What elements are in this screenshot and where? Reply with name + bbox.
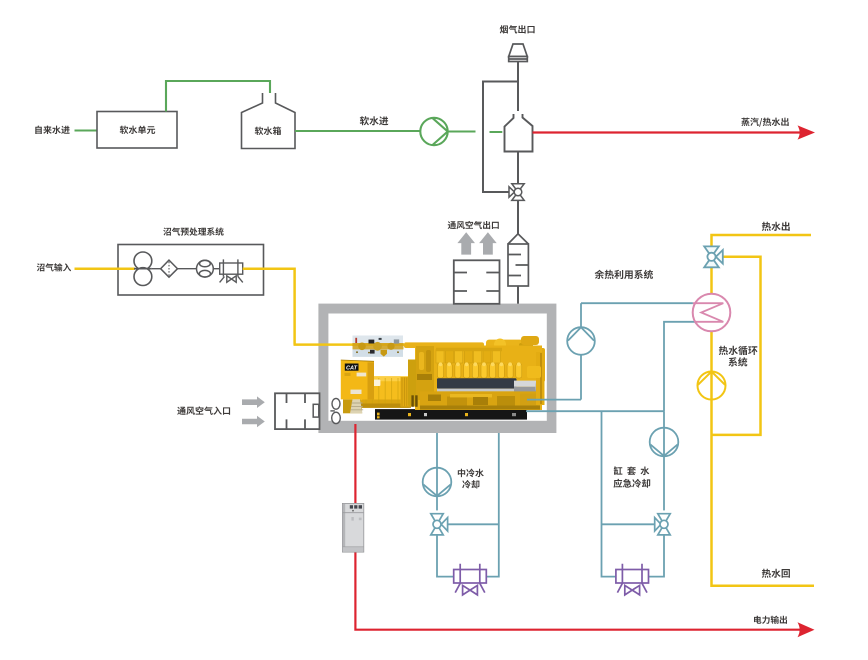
label: hot water circulation xyxy=(719,346,758,355)
vent air inlet arrows xyxy=(242,396,265,427)
svg-text:CAT: CAT xyxy=(346,366,358,372)
intercooler pump A4 xyxy=(423,468,452,497)
wire: boiler bottom xyxy=(517,152,519,184)
flue gas outlet cap xyxy=(509,44,528,62)
wire: valve arm to left drop xyxy=(602,523,655,525)
wire: hot water out header xyxy=(712,235,812,246)
wire: to heat exchanger top xyxy=(581,302,693,304)
gas meter xyxy=(197,260,214,277)
wire: HX bottom return xyxy=(664,322,695,411)
wire xyxy=(152,268,161,270)
air cleaner stack xyxy=(350,399,363,413)
gas train picture xyxy=(353,336,404,357)
wire: biogas over gas train xyxy=(352,343,404,346)
wire: emergency cooling drop left xyxy=(602,411,616,576)
wire: intercooler drop right xyxy=(487,433,499,577)
label: emergency cooling xyxy=(614,479,651,488)
label: tap water in xyxy=(35,126,70,134)
wire xyxy=(213,268,220,270)
wire: HX to hot water return xyxy=(712,332,815,586)
label: steam/hot water out xyxy=(741,118,788,127)
biogas blower (twin lobes) xyxy=(134,252,152,286)
wire: exhaust bypass loop xyxy=(483,82,518,193)
three-way valve V4 (intercooler) xyxy=(431,514,448,535)
three-way valve V3 (emergency cooling) xyxy=(655,514,671,535)
label: vent air outlet xyxy=(448,221,499,229)
power output arrowhead xyxy=(798,622,815,637)
jacket water pump A2 xyxy=(567,327,595,355)
gas pressure regulator xyxy=(220,259,243,282)
label: intercooler water xyxy=(458,469,484,478)
vent air outlet silencer box xyxy=(454,260,500,304)
genset base skid xyxy=(343,399,527,419)
vent air inlet louver box xyxy=(275,393,320,429)
control cabinet xyxy=(342,503,363,552)
plate heat exchanger xyxy=(693,294,731,332)
wire: tank to pump xyxy=(295,130,420,132)
wire: jacket water return stub xyxy=(526,410,664,412)
label: hot water return xyxy=(762,569,790,578)
label: biogas input xyxy=(37,263,71,271)
soft water unit box xyxy=(97,112,177,149)
wire: silencer to container roof xyxy=(517,286,519,304)
label: power output xyxy=(754,616,787,624)
control panel with CAT logo xyxy=(341,360,374,399)
gas filter (diamond) xyxy=(161,260,178,277)
remote radiator R1 (intercooler) xyxy=(454,564,487,595)
wire: intercooler drop left xyxy=(436,433,438,510)
label: flue gas outlet xyxy=(500,25,535,33)
steam/hot-water out red line xyxy=(533,131,801,133)
wire: unit top to tank xyxy=(166,81,270,112)
three-way valve V5 (hot water) xyxy=(704,246,723,267)
emergency cooling pump A3 xyxy=(650,428,679,457)
wire: hot water bypass loop xyxy=(713,257,761,435)
gas train details xyxy=(353,338,404,357)
wire: pump to boiler (with dash) xyxy=(448,130,503,133)
biogas pre-treatment box xyxy=(118,245,264,296)
label: soft water tank xyxy=(255,127,281,136)
wire: biogas line into container xyxy=(294,343,405,346)
wire: jacket water riser xyxy=(580,303,582,399)
alternator xyxy=(361,376,421,408)
wire: valve to exhaust silencer xyxy=(517,200,519,234)
steam/hot-water out arrowhead xyxy=(798,125,816,139)
exhaust heat recovery boiler xyxy=(505,114,533,152)
wire xyxy=(178,268,197,270)
soft water tank xyxy=(242,93,296,149)
wire: valve down to radiator xyxy=(649,535,664,577)
ventilation fan xyxy=(330,398,340,423)
container outer wall xyxy=(318,304,556,433)
wire: cap down to boiler xyxy=(517,62,519,112)
remote radiator R2 (emergency cooling) xyxy=(616,564,649,595)
label: soft water unit xyxy=(120,126,156,134)
container interior xyxy=(328,314,546,421)
wire: tap water inlet to soft water unit xyxy=(75,129,98,131)
three-way valve V1 (exhaust) xyxy=(509,184,524,201)
label: biogas pretreatment system xyxy=(163,227,223,235)
feed-water pump P1 xyxy=(420,118,447,145)
power output line xyxy=(355,424,800,630)
label: system xyxy=(728,357,747,366)
vent air outlet arrows xyxy=(457,232,496,254)
wire: biogas to container (yellow) xyxy=(243,269,295,345)
wire: jacket water supply stub xyxy=(527,399,581,401)
label: cooling xyxy=(462,480,479,489)
wire: valve down to radiator xyxy=(437,535,454,577)
engine block xyxy=(404,336,545,410)
hot water circulating pump A5 xyxy=(698,372,726,400)
CAT generator set xyxy=(341,336,545,420)
wire: valve arm to right drop xyxy=(448,523,499,525)
label: jacket water xyxy=(614,466,650,475)
exhaust silencer xyxy=(508,234,528,286)
label: hot water out xyxy=(762,222,790,231)
wire: biogas input (yellow) xyxy=(75,267,136,270)
label: vent air inlet xyxy=(177,406,230,415)
wire: emergency cooling drop right xyxy=(663,411,665,510)
wire: valve to HX xyxy=(710,267,713,294)
label: soft water in xyxy=(360,116,389,125)
label: waste heat utilisation system xyxy=(595,270,653,279)
